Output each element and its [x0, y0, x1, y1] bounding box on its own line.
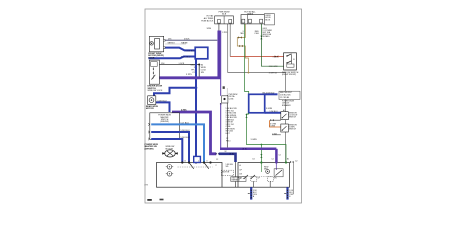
svg-text:3 RED: 3 RED: [273, 56, 279, 58]
connector stub right: [286, 187, 288, 199]
wire: lockout return line: [271, 119, 281, 121]
svg-text:C2: C2: [216, 159, 218, 161]
door box internal motor 2: [167, 172, 172, 177]
wire: tan circuit from box B: [237, 24, 248, 73]
svg-text:C2: C2: [279, 155, 281, 157]
svg-text:1998: 1998: [144, 184, 148, 186]
window switch right box: [284, 53, 297, 70]
svg-text:5 DK BLU 585: 5 DK BLU 585: [280, 94, 291, 96]
window motor M2 small: [148, 96, 156, 105]
svg-text:C2: C2: [272, 159, 274, 161]
wire: red feed across: [230, 56, 283, 58]
svg-text:5 DK BLU: 5 DK BLU: [181, 130, 190, 132]
svg-text:585: 585: [226, 166, 229, 168]
svg-text:3 GRY 84: 3 GRY 84: [269, 72, 277, 74]
wire: green vertical mid right: [247, 118, 287, 163]
right box relay sub-box: [274, 169, 283, 177]
fuse block A: [215, 16, 234, 24]
wire: green continues below blue rect: [247, 113, 249, 118]
svg-text:DN: DN: [240, 174, 243, 176]
wire: dark blue master switch run 2: [180, 139, 182, 163]
svg-text:3 PPL: 3 PPL: [222, 32, 227, 34]
down switch small box: [281, 124, 289, 132]
wire: dark green from box B right pin: [261, 24, 283, 66]
wire: dark blue thick link to connector C2: [219, 154, 236, 162]
wire: green branch to motor box: [260, 145, 262, 163]
wire: gray second vertical: [227, 24, 229, 73]
svg-text:DN: DN: [274, 178, 277, 180]
wire: box A right pin vertical (gray): [229, 24, 231, 57]
driver door switch box: [157, 163, 223, 188]
svg-text:A: A: [240, 164, 242, 167]
junction block B: [241, 15, 264, 24]
wire: green from box B mid pin to blue rect: [245, 24, 249, 94]
svg-text:SWITCH: SWITCH: [289, 129, 297, 131]
svg-text:FUSE BLOCK: FUSE BLOCK: [201, 21, 214, 23]
diagram border frame: [145, 9, 302, 203]
down switch return line: [272, 134, 281, 136]
svg-text:S234: S234: [207, 28, 211, 30]
svg-text:DOOR: DOOR: [148, 57, 155, 59]
wire: C2 column line: [226, 88, 228, 147]
svg-text:(DRIVER): (DRIVER): [145, 148, 154, 150]
wire: purple thick run to motor box: [220, 148, 276, 151]
svg-text:3 ORN: 3 ORN: [270, 124, 277, 126]
connector box on purple drop: [222, 96, 228, 103]
wire: thin vertical drop to purple: [198, 65, 200, 78]
svg-text:585 5 DK BLU: 585 5 DK BLU: [262, 93, 275, 95]
svg-text:A1: A1: [283, 109, 285, 112]
wire: lock switch thin lead: [159, 64, 199, 66]
right box dashed element 1: [251, 177, 257, 182]
wire: purple main from fuse A to lock switch: [159, 31, 219, 78]
svg-text:TIMES: TIMES: [247, 13, 254, 15]
wire: C2 connector vertical: [227, 95, 229, 148]
blue wire bordered label block right: [279, 91, 300, 99]
label box on blue drop: [194, 156, 201, 162]
svg-text:3 GRN: 3 GRN: [251, 139, 258, 141]
junction dots on right box top: [260, 161, 262, 163]
wire: gray vertical to motor box: [285, 73, 287, 163]
wire: purple from master switch down: [172, 112, 216, 154]
wire: blue long drop to label box: [195, 88, 197, 157]
right box switch arms: [244, 175, 255, 179]
right box purple lead inside: [275, 163, 277, 171]
svg-text:C100: C100: [254, 33, 259, 35]
wire: motor M1 middle lead: [165, 43, 186, 45]
svg-text:5 DK BLU: 5 DK BLU: [186, 50, 196, 52]
svg-text:LEFT: LEFT: [226, 133, 231, 135]
svg-text:C2: C2: [192, 72, 194, 74]
svg-text:BREAKER: BREAKER: [282, 104, 291, 107]
svg-text:RAISE: RAISE: [181, 42, 188, 45]
svg-text:(RIGHT FRONT): (RIGHT FRONT): [282, 74, 297, 76]
window motor M1 (top left): [149, 36, 163, 52]
svg-text:5 DK BLU: 5 DK BLU: [181, 137, 190, 139]
svg-text:MOTOR: MOTOR: [222, 171, 230, 173]
wire: blue run to breaker text: [265, 93, 278, 95]
svg-text:B: B: [289, 196, 291, 198]
wire: light blue master switch run: [180, 124, 204, 162]
wire: thin drop through C2 label box: [235, 162, 237, 177]
box bottom connecting line: [222, 186, 238, 188]
door box junction dots: [181, 161, 183, 163]
wire: purple vertical into motor box: [275, 149, 278, 163]
wire: fuse box A lead down: [218, 24, 220, 31]
svg-text:S2: S2: [225, 151, 227, 153]
svg-text:5 DK BLU: 5 DK BLU: [270, 111, 279, 113]
wire: orange link to down switch: [270, 120, 281, 127]
svg-text:(DRIVER): (DRIVER): [160, 121, 169, 123]
svg-text:D2: D2: [253, 159, 255, 161]
connector label box C2: [231, 177, 246, 182]
svg-text:SEE PWR DIST: SEE PWR DIST: [280, 92, 292, 94]
svg-text:3 PPL: 3 PPL: [181, 110, 188, 112]
svg-text:UP: UP: [240, 169, 243, 171]
svg-text:LOCK: LOCK: [179, 63, 185, 65]
door box internal motor 1: [167, 165, 172, 170]
window lockout small box: [281, 112, 289, 120]
right box green lead inside: [260, 163, 262, 173]
svg-text:TAN: TAN: [240, 32, 244, 35]
gray connector line right of box: [290, 161, 294, 163]
svg-text:C2 B6: C2 B6: [229, 98, 234, 100]
wire: motor M1 top lead: [165, 39, 217, 41]
svg-text:5 BLK: 5 BLK: [184, 39, 190, 41]
svg-text:UP: UP: [258, 178, 261, 180]
right box dashed element 2: [267, 177, 273, 182]
door box switch arms: [189, 163, 209, 169]
blue connector box: [195, 47, 208, 59]
window motor box right: [238, 163, 290, 188]
wire: purple thin drop with connector box: [220, 31, 222, 96]
connector stub left: [250, 187, 252, 199]
svg-text:S2: S2: [220, 104, 222, 106]
wire: blue from motor M2 into master switch: [156, 102, 170, 112]
wire: dark blue master switch run 1: [180, 132, 189, 163]
svg-text:3 GRN: 3 GRN: [266, 108, 273, 110]
svg-text:30 A: 30 A: [222, 12, 227, 15]
svg-text:C2 C305 B6: C2 C305 B6: [280, 97, 289, 99]
window lock switch: [149, 60, 159, 84]
blue rectangle run right side: [249, 94, 265, 113]
svg-text:SWITCH: SWITCH: [289, 116, 297, 118]
footer marks: [147, 199, 152, 201]
svg-text:MOTOR: MOTOR: [146, 108, 154, 110]
svg-text:WINDOW LOCK: WINDOW LOCK: [148, 90, 163, 92]
svg-text:B1: B1: [287, 159, 289, 161]
svg-text:2: 2: [216, 165, 217, 167]
svg-text:3 PPL: 3 PPL: [186, 74, 193, 76]
wire: blue drop and jog into rear motor: [154, 59, 196, 96]
svg-text:3 DK GRN: 3 DK GRN: [269, 66, 278, 68]
wire: blue from connector to lock switch: [149, 57, 196, 59]
wire: blue from motor M1 to connector: [164, 48, 196, 51]
svg-text:C2: C2: [295, 160, 297, 162]
wire: gray horizontal to window switch: [228, 72, 286, 74]
wire: blue bottom edge to lockout switch: [265, 112, 281, 114]
dashed expansion box: [221, 170, 233, 175]
svg-text:SERVO: SERVO: [168, 43, 176, 45]
svg-text:5 DK BLU: 5 DK BLU: [181, 57, 191, 59]
tiny connector mark above box: [223, 86, 225, 89]
svg-text:5 LT BLU: 5 LT BLU: [181, 122, 190, 124]
svg-text:BLOK: BLOK: [265, 19, 271, 21]
power window master switch: [150, 113, 180, 140]
svg-text:5 DK BLU: 5 DK BLU: [158, 101, 167, 103]
svg-text:SW: SW: [201, 72, 204, 74]
svg-text:PIN 4: PIN 4: [226, 140, 230, 142]
svg-text:DETAILS: DETAILS: [262, 35, 270, 38]
